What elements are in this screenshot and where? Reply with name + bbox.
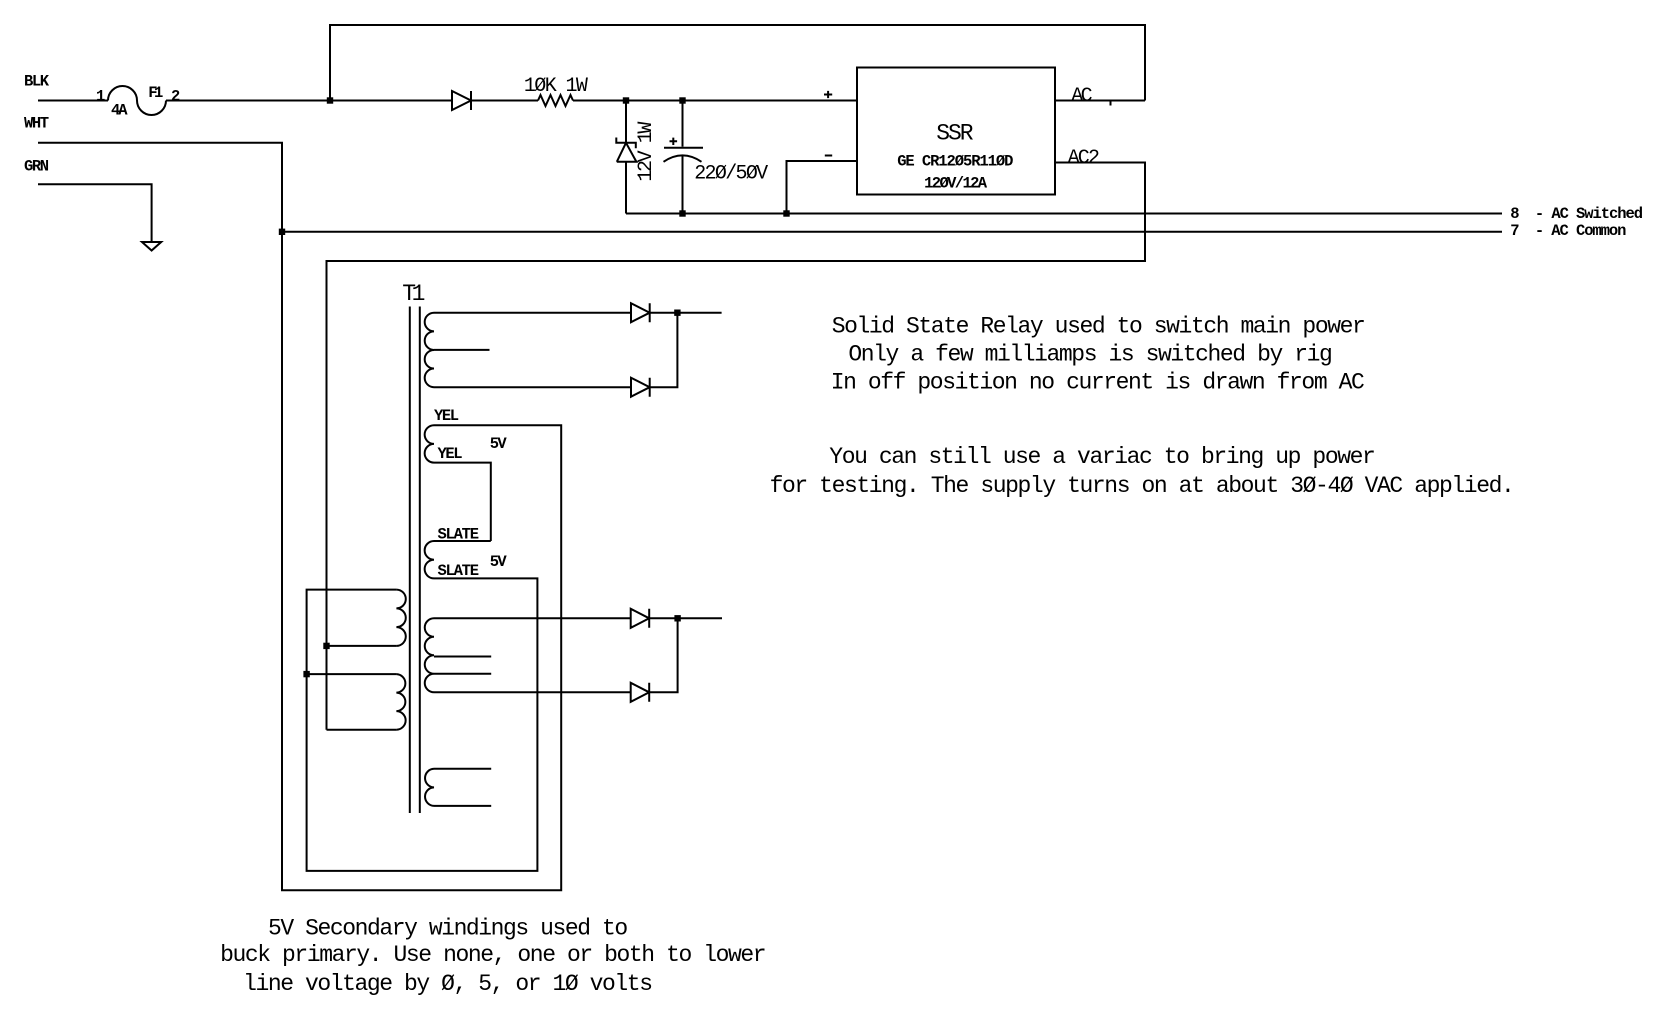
- SSR plus sign: [824, 91, 832, 98]
- svg-text:GRN: GRN: [24, 157, 49, 175]
- svg-text:line voltage by Ø, 5, or 1Ø vo: line voltage by Ø, 5, or 1Ø volts: [243, 971, 653, 997]
- resistor 10K 1W: [538, 95, 573, 106]
- wire S3 bottom lead: [434, 805, 491, 807]
- svg-text:SLATE: SLATE: [438, 562, 480, 580]
- wire D3 to junction: [650, 313, 678, 388]
- wire S3 top lead: [434, 768, 491, 770]
- svg-text:12V 1W: 12V 1W: [635, 122, 658, 182]
- wire SSR AC terminal: [1055, 100, 1145, 102]
- svg-text:12ØV/12A: 12ØV/12A: [924, 174, 988, 192]
- wire rail AC Common: [282, 231, 1502, 233]
- capacitor plus sign: [670, 138, 678, 145]
- capacitor C1 220/50V: [664, 148, 704, 162]
- wire SSR AC2 to primary: [327, 163, 1146, 730]
- wire S1 center tap: [434, 349, 490, 351]
- wire YEL bottom lead: [434, 463, 491, 541]
- diode D3: [631, 378, 650, 397]
- ground symbol: [142, 242, 161, 251]
- svg-text:8 - AC Switched: 8 - AC Switched: [1510, 205, 1643, 223]
- svg-text:5V: 5V: [490, 553, 508, 571]
- wire S2 tap 2: [434, 673, 491, 675]
- wire cap to rail: [682, 156, 684, 214]
- junction P1 bottom: [323, 643, 329, 649]
- wire zener branch top: [625, 101, 627, 143]
- diode D2: [631, 303, 650, 322]
- wire SLATE top lead: [434, 540, 491, 542]
- wire S1 bottom lead: [434, 386, 631, 388]
- wire fuse to diode: [166, 100, 452, 102]
- wire P2 top lead: [307, 673, 397, 675]
- svg-text:buck primary. Use none, one or: buck primary. Use none, one or both to l…: [220, 942, 767, 968]
- junction WHT at AC Common rail: [279, 229, 285, 235]
- svg-text:YEL: YEL: [434, 407, 459, 425]
- zener diode 12V 1W: [616, 138, 636, 162]
- svg-text:SLATE: SLATE: [438, 526, 480, 544]
- svg-text:4A: 4A: [111, 101, 128, 119]
- svg-text:T1: T1: [402, 281, 425, 307]
- svg-text:Solid State Relay used to swit: Solid State Relay used to switch main po…: [832, 314, 1366, 340]
- svg-text:YEL: YEL: [438, 445, 463, 463]
- junction D2 stub: [674, 310, 680, 316]
- T1 winding YEL 5V: [425, 425, 434, 462]
- wire SLATE bottom lead inner wrap to primary top: [307, 578, 538, 871]
- junction minus at rail: [783, 210, 789, 216]
- fuse F1: [108, 86, 166, 115]
- wire P1 bottom lead: [327, 645, 397, 647]
- wire S1 top lead: [434, 312, 631, 314]
- wire SSR minus stub: [787, 161, 858, 214]
- T1 secondary winding S1: [425, 313, 434, 388]
- wire D5 to junction: [649, 618, 677, 692]
- wire WHT line outer wrap to YEL top: [38, 143, 561, 891]
- wire cap branch top: [682, 101, 684, 147]
- wire S2 bottom lead: [434, 691, 631, 693]
- junction cap at rail: [679, 210, 685, 216]
- wire top rail AC loop: [330, 25, 1145, 101]
- svg-text:F1: F1: [148, 84, 163, 102]
- svg-text:7 - AC Common: 7 - AC Common: [1510, 222, 1626, 240]
- wire S2 top lead: [434, 617, 631, 619]
- diode D5: [631, 683, 650, 702]
- svg-text:You can still use a variac to: You can still use a variac to bring up p…: [829, 444, 1376, 470]
- junction D4 stub: [674, 615, 680, 621]
- T1 primary winding P2: [396, 674, 405, 730]
- svg-text:1: 1: [96, 87, 105, 105]
- svg-text:5V: 5V: [490, 435, 508, 453]
- diode D4: [631, 609, 650, 628]
- AC comma tick: [1110, 102, 1112, 106]
- svg-text:In off position no current is: In off position no current is drawn from…: [831, 369, 1365, 395]
- svg-text:BLK: BLK: [24, 73, 50, 91]
- wire diode to resistor: [471, 100, 538, 102]
- wire GRN lead: [38, 184, 152, 242]
- junction zener at main line: [623, 97, 629, 103]
- wire P2 bottom lead: [327, 729, 397, 731]
- junction P2 top: [303, 671, 309, 677]
- svg-text:WHT: WHT: [24, 115, 49, 133]
- wire BLK lead: [38, 100, 108, 102]
- junction top rail at BLK: [327, 97, 333, 103]
- diode D1: [452, 91, 471, 110]
- svg-text:SSR: SSR: [936, 121, 973, 147]
- transformer T1 core: [410, 307, 420, 814]
- T1 main secondary S2: [425, 618, 434, 692]
- SSR minus sign: [825, 155, 832, 157]
- svg-text:AC2: AC2: [1068, 147, 1100, 170]
- svg-text:for testing. The supply turns: for testing. The supply turns on at abou…: [770, 473, 1515, 499]
- svg-text:GE CR12Ø5R11ØD: GE CR12Ø5R11ØD: [897, 153, 1013, 171]
- wire D4 output stub: [649, 617, 722, 619]
- svg-text:2: 2: [171, 87, 180, 105]
- junction cap at main line: [679, 97, 685, 103]
- svg-text:22Ø/5ØV: 22Ø/5ØV: [694, 163, 768, 186]
- T1 primary winding P1: [396, 590, 405, 646]
- svg-text:1ØK 1W: 1ØK 1W: [524, 75, 588, 98]
- wire rail AC Switched: [626, 213, 1502, 215]
- wire zener to rail: [625, 162, 627, 214]
- wire S2 tap 1: [434, 656, 491, 658]
- svg-text:AC: AC: [1071, 85, 1092, 108]
- wire D2 output stub: [650, 312, 722, 314]
- svg-text:5V Secondary windings used to: 5V Secondary windings used to: [268, 915, 628, 941]
- svg-text:Only a few milliamps is switch: Only a few milliamps is switched by rig: [848, 341, 1332, 367]
- T1 winding SLATE 5V: [425, 541, 434, 578]
- T1 bottom winding S3: [425, 769, 434, 806]
- wire resistor to SSR plus: [573, 100, 857, 102]
- SSR box U1: [857, 68, 1055, 195]
